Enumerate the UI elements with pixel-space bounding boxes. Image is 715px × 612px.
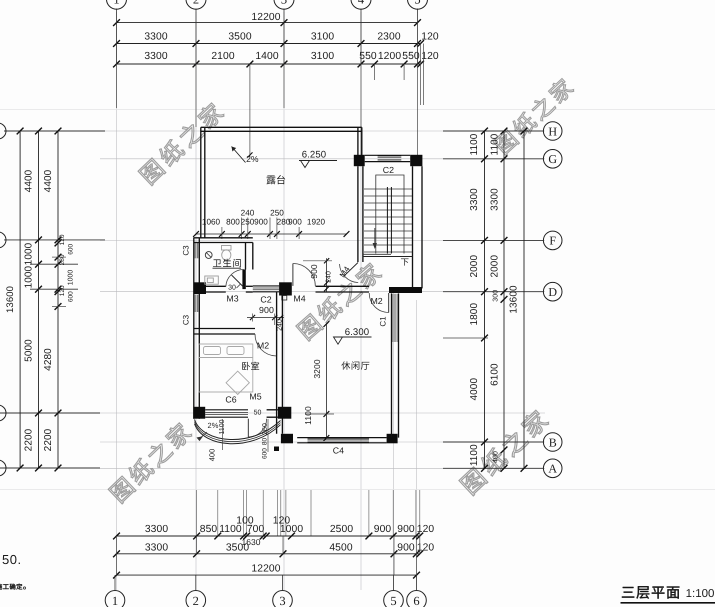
wall stub jamb-to-C2 <box>246 285 253 287</box>
svg-text:3300: 3300 <box>490 188 501 211</box>
balcony end marker <box>274 447 279 452</box>
svg-text:1000: 1000 <box>24 242 35 265</box>
dim 900/240 vertical near M4 <box>326 258 328 292</box>
svg-text:F: F <box>549 234 556 248</box>
svg-text:C2: C2 <box>260 295 271 305</box>
svg-text:2200: 2200 <box>43 428 54 451</box>
svg-text:1400: 1400 <box>255 51 278 62</box>
svg-text:550: 550 <box>359 51 377 62</box>
door M3 arc <box>226 269 244 286</box>
svg-text:50.: 50. <box>2 552 22 567</box>
svg-text:M3: M3 <box>226 294 238 304</box>
corridor south wall segment <box>316 285 370 287</box>
window C1 <box>391 294 393 342</box>
terrace right connector wall <box>357 127 359 156</box>
svg-text:120: 120 <box>273 516 291 527</box>
svg-text:50: 50 <box>254 410 262 417</box>
stair NE column <box>410 155 422 166</box>
svg-text:1800: 1800 <box>469 303 480 326</box>
hall vertical dim 3200/1100 <box>325 324 327 438</box>
svg-text:G: G <box>548 152 557 166</box>
svg-text:900: 900 <box>374 524 392 535</box>
bathroom right wall <box>245 243 247 270</box>
svg-text:3500: 3500 <box>228 32 251 43</box>
svg-text:2000: 2000 <box>490 255 501 278</box>
bedroom bottom wall: SW column <box>193 407 205 419</box>
svg-text:120: 120 <box>421 32 439 43</box>
svg-text:120: 120 <box>417 524 435 535</box>
stair NW column <box>354 155 365 166</box>
svg-text:H: H <box>548 124 557 138</box>
svg-text:C1: C1 <box>379 316 388 327</box>
svg-text:600: 600 <box>68 291 75 302</box>
stair bottom black wall band <box>389 287 422 293</box>
svg-text:3300: 3300 <box>144 32 167 43</box>
stair right wall <box>412 166 414 288</box>
bedroom label 卧室 <box>242 362 259 371</box>
svg-text:1: 1 <box>112 594 118 607</box>
right dim chains <box>484 131 486 468</box>
svg-text:2000: 2000 <box>469 255 480 278</box>
right grid bubbles H G F D B A <box>543 122 562 141</box>
svg-text:4400: 4400 <box>24 169 35 192</box>
small notch below column <box>282 296 287 301</box>
svg-text:5000: 5000 <box>24 339 35 362</box>
svg-text:1:100: 1:100 <box>686 588 715 600</box>
stair well outline <box>376 175 404 254</box>
svg-text:13600: 13600 <box>5 286 16 313</box>
svg-text:120: 120 <box>59 285 66 296</box>
top grid bubbles 1-5 <box>107 0 127 9</box>
svg-text:13600: 13600 <box>509 285 520 314</box>
door M2 bedroom leaf+arc <box>276 334 278 356</box>
svg-text:400: 400 <box>493 451 500 463</box>
svg-text:12200: 12200 <box>251 563 280 574</box>
svg-text:5: 5 <box>390 594 396 607</box>
svg-text:B: B <box>549 435 557 449</box>
watermark 图纸之家 x6 <box>137 101 225 186</box>
svg-text:120: 120 <box>417 543 435 554</box>
bathroom door jamb bar <box>242 270 245 290</box>
door M5 leaf+arc <box>247 419 249 437</box>
svg-text:4280: 4280 <box>43 348 54 371</box>
bottom grid bubbles 1,2,3,5,6 <box>105 591 125 611</box>
top dimension lines <box>117 22 418 24</box>
stair down arrow <box>374 228 376 247</box>
svg-text:6100: 6100 <box>490 363 501 386</box>
svg-text:2%: 2% <box>246 154 259 164</box>
svg-text:2200: 2200 <box>24 428 35 451</box>
svg-text:2500: 2500 <box>330 524 353 535</box>
svg-text:80: 80 <box>262 438 269 446</box>
svg-text:400: 400 <box>208 449 217 462</box>
svg-text:M2: M2 <box>370 296 382 306</box>
wall stub M5-column <box>267 409 278 411</box>
bottom-left small note <box>0 584 22 590</box>
svg-text:3300: 3300 <box>469 188 480 211</box>
window C3 upper <box>193 243 195 258</box>
svg-text:5: 5 <box>414 0 420 7</box>
bathroom top wall <box>194 237 253 239</box>
svg-text:30: 30 <box>228 285 236 292</box>
grid axis lines (light) <box>116 12 118 590</box>
top extension lines <box>116 9 118 65</box>
stair treads <box>364 188 412 190</box>
svg-text:4000: 4000 <box>469 378 480 401</box>
svg-text:280: 280 <box>277 218 291 227</box>
svg-text:250: 250 <box>270 209 284 218</box>
right grid lines <box>443 130 543 132</box>
door M4 leaf+arc <box>292 264 294 286</box>
shower symbol <box>205 252 212 259</box>
svg-text:2: 2 <box>193 594 199 607</box>
svg-text:3: 3 <box>279 594 285 607</box>
hall SE column <box>387 434 398 444</box>
corridor column <box>279 282 292 295</box>
svg-text:2100: 2100 <box>211 51 234 62</box>
svg-text:6.250: 6.250 <box>302 150 327 161</box>
stair left wall <box>357 166 359 262</box>
svg-text:900: 900 <box>397 543 415 554</box>
svg-text:M5: M5 <box>249 392 261 402</box>
svg-text:3100: 3100 <box>311 32 334 43</box>
svg-text:C3: C3 <box>182 314 191 325</box>
svg-text:1200: 1200 <box>378 51 401 62</box>
svg-text:600: 600 <box>262 448 269 459</box>
svg-text:C3: C3 <box>182 245 191 256</box>
building left wall <box>193 238 195 419</box>
balcony curved railing <box>195 420 281 440</box>
svg-text:1060: 1060 <box>202 218 221 227</box>
svg-text:300: 300 <box>493 290 500 302</box>
svg-text:3500: 3500 <box>226 543 249 554</box>
svg-text:C2: C2 <box>383 165 394 175</box>
bottom inter-row verticals <box>196 536 198 554</box>
svg-text:3300: 3300 <box>145 543 168 554</box>
terrace inner dim row <box>196 233 347 235</box>
door M2 (stair-hall) leaf+arc <box>388 293 390 313</box>
bed <box>199 344 253 394</box>
svg-text:1000: 1000 <box>68 270 75 286</box>
window C3 lower <box>193 295 195 312</box>
svg-text:1100: 1100 <box>490 133 501 155</box>
svg-text:4: 4 <box>358 0 365 7</box>
hall SW column <box>281 434 293 444</box>
svg-text:850: 850 <box>200 524 218 535</box>
svg-text:3: 3 <box>281 0 287 7</box>
svg-text:6: 6 <box>413 594 419 607</box>
left grid bubbles (clipped) <box>0 123 6 139</box>
svg-text:240: 240 <box>241 209 255 218</box>
hall east wall <box>391 293 393 437</box>
label 卫生间 <box>213 259 241 267</box>
svg-text:D: D <box>548 285 557 299</box>
left grid lines <box>4 130 105 132</box>
hall south wall + window C4 <box>297 437 386 439</box>
bedroom right wall <box>276 292 278 434</box>
svg-text:A: A <box>548 462 557 476</box>
svg-text:900: 900 <box>309 264 319 279</box>
svg-text:900: 900 <box>254 218 268 227</box>
terrace parapet left <box>200 127 202 238</box>
svg-text:3200: 3200 <box>312 359 322 378</box>
svg-text:600: 600 <box>68 243 75 254</box>
svg-text:M4: M4 <box>293 294 305 304</box>
label 下 <box>401 258 409 265</box>
svg-text:12200: 12200 <box>251 12 280 23</box>
svg-text:1100: 1100 <box>303 406 313 425</box>
svg-text:4400: 4400 <box>43 169 54 192</box>
washbasin <box>205 276 219 284</box>
svg-text:4500: 4500 <box>329 543 352 554</box>
bottom extension lines <box>196 490 198 536</box>
svg-text:1920: 1920 <box>307 218 326 227</box>
svg-text:1000: 1000 <box>24 265 35 288</box>
label 露台 <box>267 175 286 184</box>
bottom dimension lines <box>117 535 420 537</box>
svg-text:120: 120 <box>59 234 66 245</box>
svg-text:280: 280 <box>59 254 66 265</box>
svg-text:3300: 3300 <box>144 51 167 62</box>
svg-text:3100: 3100 <box>311 51 334 62</box>
svg-text:100: 100 <box>236 516 254 527</box>
left dim chains <box>19 131 21 468</box>
svg-text:1: 1 <box>113 0 119 7</box>
stair center rail <box>386 187 388 254</box>
hall label 休闲厅 <box>341 361 369 369</box>
svg-text:2: 2 <box>193 0 199 7</box>
stair top wall + window C2 <box>365 154 411 156</box>
window C6 <box>205 409 248 411</box>
window C2 (corridor) <box>253 285 279 287</box>
svg-text:900: 900 <box>397 524 415 535</box>
svg-text:C6: C6 <box>225 395 236 405</box>
title 三层平面 1:100 <box>622 586 679 599</box>
svg-text:1100: 1100 <box>469 444 480 466</box>
svg-text:800: 800 <box>226 218 240 227</box>
svg-text:M2: M2 <box>257 341 269 351</box>
svg-text:C4: C4 <box>333 446 344 456</box>
bathroom bottom wall <box>206 285 226 287</box>
svg-text:1100: 1100 <box>469 133 480 155</box>
toilet <box>222 246 232 261</box>
svg-text:240: 240 <box>326 271 333 283</box>
terrace slope arrow 2% <box>232 147 246 163</box>
terrace parapet top <box>201 126 362 128</box>
bathroom SW column <box>194 282 206 294</box>
bedroom SE column <box>278 407 291 419</box>
door M4 rotated (stair) leaf+arc <box>340 264 359 283</box>
svg-text:2300: 2300 <box>377 32 400 43</box>
svg-text:900: 900 <box>259 305 274 315</box>
stair landing edge <box>363 256 413 258</box>
svg-text:6.300: 6.300 <box>345 327 370 338</box>
bedroom north wall <box>194 328 255 330</box>
svg-text:2%: 2% <box>207 421 218 430</box>
svg-text:3300: 3300 <box>145 524 168 535</box>
